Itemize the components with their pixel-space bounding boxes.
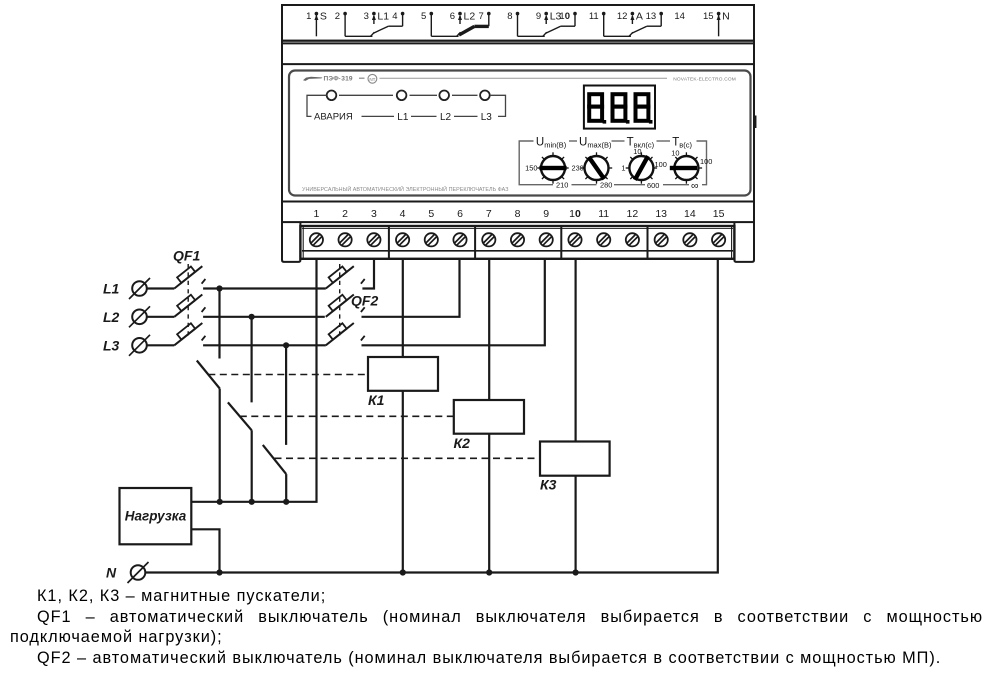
top strip changeover contact L3 (terminals 8-10) [517,15,519,36]
svg-text:УНИВЕРСАЛЬНЫЙ АВТОМАТИЧЕСКИЙ Э: УНИВЕРСАЛЬНЫЙ АВТОМАТИЧЕСКИЙ ЭЛЕКТРОННЫЙ… [302,185,509,193]
svg-text:11: 11 [589,11,599,22]
svg-text:15: 15 [713,208,725,220]
svg-text:L2: L2 [440,112,452,123]
screw terminal 12 [626,233,639,246]
screw terminal 11 [597,233,610,246]
wiring labels [103,248,557,581]
svg-text:L2: L2 [464,10,476,22]
svg-text:NT: NT [369,77,375,82]
contactor main contact of K3 [285,345,287,445]
svg-text:L3: L3 [550,10,562,22]
QF2 pole L2 [322,289,354,317]
input terminal L3 [132,338,147,353]
svg-text:A: A [636,10,643,22]
screw terminal 4 [396,233,409,246]
svg-text:2: 2 [342,208,348,220]
svg-text:13: 13 [655,208,667,220]
svg-text:АВАРИЯ: АВАРИЯ [314,112,353,123]
svg-text:100: 100 [655,160,667,169]
svg-text:∞: ∞ [691,180,699,192]
load bus to terminal 1 [191,259,316,502]
neutral line N [145,259,718,573]
svg-text:7: 7 [486,208,492,220]
screw terminal 3 [367,233,380,246]
svg-text:L1: L1 [103,281,120,297]
knobs [537,152,702,183]
svg-text:3: 3 [371,208,377,220]
screw terminal 2 [339,233,352,246]
svg-text:280: 280 [600,180,612,189]
7-segment display 8.8.8. [584,86,655,129]
top strip changeover contact L1 (terminals 2-4) [344,15,346,36]
svg-text:12: 12 [627,208,639,220]
screw terminal 15 [712,233,725,246]
phase wires to QF2 [203,287,326,289]
input terminal L2 [132,310,147,325]
svg-text:L1: L1 [377,10,389,22]
svg-text:S: S [320,10,327,22]
knob Tv [671,152,702,183]
load neutral wire [191,529,219,572]
svg-text:9: 9 [536,11,541,22]
svg-text:150: 150 [525,164,537,173]
coil K3 [574,259,576,442]
svg-text:NOVATEK-ELECTRO.COM: NOVATEK-ELECTRO.COM [673,76,736,82]
svg-text:L2: L2 [103,309,120,325]
screw terminal 1 [310,233,323,246]
knob bracket and labels [519,141,706,185]
svg-text:2: 2 [335,11,340,22]
screw terminal 9 [540,233,553,246]
svg-text:15: 15 [703,11,714,22]
svg-text:14: 14 [684,208,696,220]
input terminal L1 [132,281,147,296]
coil K1 [402,259,404,357]
screw terminal 13 [655,233,668,246]
svg-text:К3: К3 [540,477,557,493]
dashed link K2 [240,415,454,417]
svg-text:L3: L3 [481,112,493,123]
dashed link K3 [275,457,541,459]
LED row [327,91,490,101]
svg-text:100: 100 [700,157,712,166]
load box [120,488,192,544]
svg-text:3: 3 [364,11,369,22]
contactor main contact of K2 [251,317,253,403]
external wiring [120,259,718,583]
screw terminal 10 [568,233,581,246]
svg-text:1: 1 [313,208,319,220]
QF2 pole L1 [322,261,354,289]
QF2 output to terminal 3 [362,259,374,289]
screw terminal 14 [683,233,696,246]
QF2 output to terminal 9 [362,259,545,346]
junction dots [216,285,578,575]
top strip terminal pins and links [316,15,718,37]
QF1 mechanical link (dashed) [187,264,189,338]
svg-text:13: 13 [646,11,657,22]
device PEF-319 case outline [282,5,756,262]
terminal N [131,565,146,580]
dashed link K1 [208,374,368,376]
QF1 pole L3 [147,344,175,346]
svg-text:600: 600 [647,181,659,190]
top strip changeover contact L2 (terminals 5-7) [430,15,432,36]
svg-text:12: 12 [617,11,628,22]
svg-text:10: 10 [569,208,581,220]
screw terminal 6 [453,233,466,246]
front panel [289,71,751,196]
svg-text:9: 9 [543,208,549,220]
svg-text:7: 7 [479,11,484,22]
svg-text:К1: К1 [368,392,385,408]
terminal screws [310,233,725,246]
screw terminal 7 [482,233,495,246]
bottom terminal numbers [313,208,724,220]
svg-text:6: 6 [457,208,463,220]
svg-text:QF1: QF1 [173,248,200,264]
knob Umin [537,152,568,183]
svg-text:230: 230 [571,164,583,173]
QF1 pole L2 [147,316,175,318]
top strip changeover contact A (terminals 11-13) [603,15,605,36]
svg-text:8: 8 [515,208,521,220]
svg-text:Нагрузка: Нагрузка [125,509,187,524]
svg-text:К2: К2 [454,435,471,451]
svg-text:5: 5 [421,11,426,22]
svg-text:L1: L1 [397,112,409,123]
QF1 pole L1 [147,287,175,289]
knob Umax [581,152,612,183]
svg-text:N: N [722,10,730,22]
svg-text:ПЭФ·319: ПЭФ·319 [324,75,353,82]
svg-text:8: 8 [507,11,512,22]
contactor main contact of K1 [218,289,220,359]
svg-text:1: 1 [306,11,311,22]
logo PEF-319 [303,74,736,83]
svg-text:N: N [106,565,117,581]
screw terminal 5 [425,233,438,246]
svg-text:5: 5 [428,208,434,220]
svg-text:QF2: QF2 [351,292,378,308]
svg-text:14: 14 [674,11,685,22]
svg-text:10: 10 [633,147,641,156]
svg-text:1: 1 [621,164,625,173]
screw terminal 8 [511,233,524,246]
svg-text:L3: L3 [103,338,120,354]
svg-text:6: 6 [450,11,455,22]
knob Tvkl [626,152,657,183]
svg-text:4: 4 [400,208,406,220]
terminal block [300,226,734,259]
svg-text:4: 4 [392,11,397,22]
svg-text:10: 10 [671,149,679,158]
coil K2 [488,259,490,400]
QF2 pole L3 [322,318,354,346]
QF2 output to terminal 6 [362,259,460,317]
svg-text:210: 210 [556,180,568,189]
QF2 mechanical link (dashed) [339,264,341,338]
svg-text:11: 11 [598,208,609,220]
